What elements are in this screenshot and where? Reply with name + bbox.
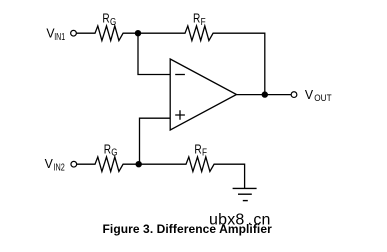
svg-text:R: R: [102, 11, 109, 26]
svg-text:R: R: [194, 142, 201, 157]
svg-text:R: R: [104, 142, 111, 157]
svg-text:R: R: [193, 11, 200, 26]
svg-text:IN1: IN1: [54, 32, 65, 43]
svg-text:ubx8.cn: ubx8.cn: [209, 212, 271, 229]
svg-text:V: V: [45, 156, 54, 171]
svg-text:G: G: [111, 148, 117, 159]
svg-text:IN2: IN2: [54, 163, 65, 174]
svg-text:OUT: OUT: [314, 93, 332, 103]
svg-text:F: F: [202, 148, 207, 159]
svg-text:G: G: [110, 17, 116, 28]
svg-text:V: V: [305, 87, 314, 102]
svg-text:F: F: [201, 17, 206, 28]
